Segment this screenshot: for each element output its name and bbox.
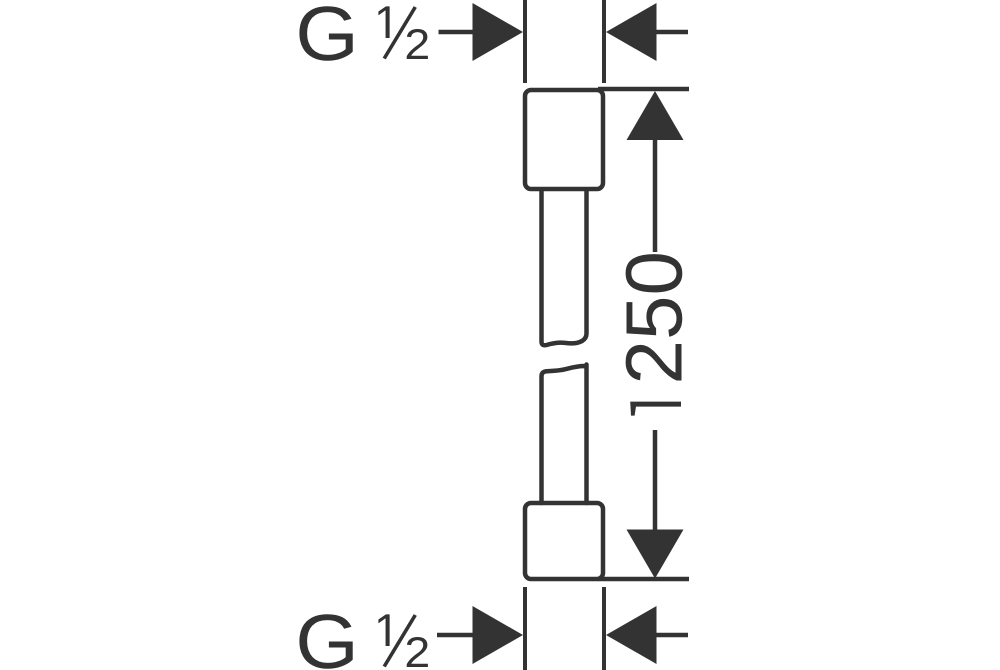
label G (bottom) <box>299 614 352 669</box>
dimension line bottom-left <box>437 633 480 638</box>
label 1/2 fraction slash (bottom) <box>384 615 415 667</box>
dimension line 1250 upper segment <box>653 138 658 252</box>
extension line top-left <box>523 0 527 83</box>
reference line at top of 1250 dimension <box>598 87 689 92</box>
bottom hose fitting <box>525 503 603 579</box>
label 1250 digit 5 (rotated) <box>627 299 683 337</box>
label 1250 digit 1 (rotated) <box>630 402 681 416</box>
arrowhead top-right pointing left <box>606 3 657 61</box>
dimension line bottom-right <box>650 633 688 638</box>
dimension line top-right <box>650 30 688 35</box>
top hose fitting (conical nut) <box>525 90 603 189</box>
extension line bottom-left <box>523 587 527 670</box>
label 1/2 denominator 2 (top) <box>407 29 428 59</box>
hose lower segment with wavy break end <box>542 365 587 504</box>
arrowhead bottom-left pointing right <box>473 606 524 664</box>
arrowhead 1250 dimension pointing down <box>627 530 684 579</box>
extension line bottom-right <box>602 587 606 670</box>
label 1/2 fraction slash (top) <box>384 7 415 59</box>
extension line top-right <box>602 0 606 83</box>
arrowhead 1250 dimension pointing up <box>627 91 684 140</box>
label 1250 digit 2 (rotated) <box>626 344 682 381</box>
label G (top) <box>299 6 352 61</box>
dimension line 1250 lower segment <box>653 430 658 533</box>
label 1/2 numerator 1 (bottom) <box>378 614 389 646</box>
arrowhead bottom-right pointing left <box>606 606 657 664</box>
arrowhead top-left pointing right <box>473 3 524 61</box>
label 1/2 denominator 2 (bottom) <box>407 637 428 667</box>
reference line at bottom of 1250 dimension <box>598 577 689 582</box>
dimension line top-left <box>439 30 481 35</box>
hose upper segment with wavy break end <box>542 189 587 345</box>
label 1/2 numerator 1 (top) <box>378 6 389 38</box>
label 1250 digit 0 (rotated) <box>626 254 683 292</box>
